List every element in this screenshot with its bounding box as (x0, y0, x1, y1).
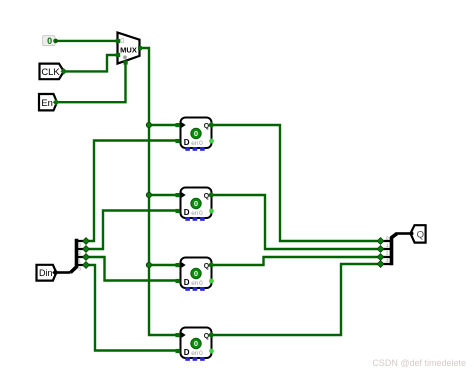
svg-text:0: 0 (47, 36, 52, 46)
splitter S1 bit labels (79, 243, 82, 272)
splitter S2 body (392, 234, 398, 266)
splitter S2 bit labels (386, 236, 389, 264)
wire: En to MUX select (56, 63, 126, 102)
splitter S1 nodes (83, 238, 90, 269)
wire: splitter bit to FF2 D (86, 211, 177, 250)
flip-flop U2 (176, 118, 214, 151)
input pin Din (37, 265, 59, 281)
mux U1 (116, 33, 142, 65)
wire: splitter bit to FF4 D (86, 265, 177, 351)
node: clock junction FF2 (146, 192, 151, 197)
svg-text:0: 0 (79, 267, 82, 272)
wire: FF3 Q to out splitter (211, 257, 381, 265)
node: clock junction FF3 (146, 262, 151, 267)
svg-text:2: 2 (386, 251, 389, 256)
svg-text:0: 0 (120, 36, 124, 45)
svg-text:1: 1 (386, 243, 389, 248)
svg-text:1: 1 (79, 259, 82, 264)
splitter S1 body (71, 239, 77, 273)
wire: splitter bit to FF1 D (86, 141, 177, 242)
splitter S2 nodes (377, 238, 384, 268)
svg-text:CSDN @def timedelete: CSDN @def timedelete (372, 358, 466, 368)
constant 0 (43, 36, 58, 46)
wire: constant 0 to MUX input 0 (56, 40, 119, 42)
node: clock junction FF1 (146, 122, 151, 127)
output pin Q (410, 225, 426, 242)
wire: splitter bit to FF3 D (86, 257, 177, 281)
splitter S2 stubs (382, 241, 391, 264)
flip-flop U5 (176, 328, 214, 361)
input pin En (39, 94, 59, 110)
splitter S1 input bus (56, 271, 71, 274)
svg-text:3: 3 (386, 258, 389, 263)
svg-text:2: 2 (79, 251, 82, 256)
wire: CLK to MUX input 1 (64, 55, 119, 71)
flip-flop U4 (176, 258, 214, 291)
svg-text:MUX: MUX (120, 46, 137, 55)
wire: clock branch FF2 (149, 194, 177, 196)
wire: FF1 Q to out splitter (211, 125, 381, 241)
svg-text:3: 3 (79, 243, 82, 248)
svg-text:0: 0 (386, 236, 389, 241)
flip-flop U3 (176, 188, 214, 221)
svg-text:Din: Din (39, 268, 53, 278)
wire: clock branch FF3 (149, 264, 177, 266)
svg-text:CLK: CLK (41, 66, 60, 77)
wire: clock branch FF1 (149, 124, 177, 126)
wire: FF2 Q to out splitter (211, 195, 381, 249)
splitter S1 stubs (77, 241, 84, 265)
splitter S2 output bus (396, 232, 411, 235)
svg-text:En: En (41, 97, 52, 108)
wire: MUX output clock distribution (140, 48, 177, 335)
svg-text:Q: Q (417, 229, 424, 240)
wire: FF4 Q to out splitter (211, 264, 381, 335)
input pin CLK (40, 64, 68, 80)
